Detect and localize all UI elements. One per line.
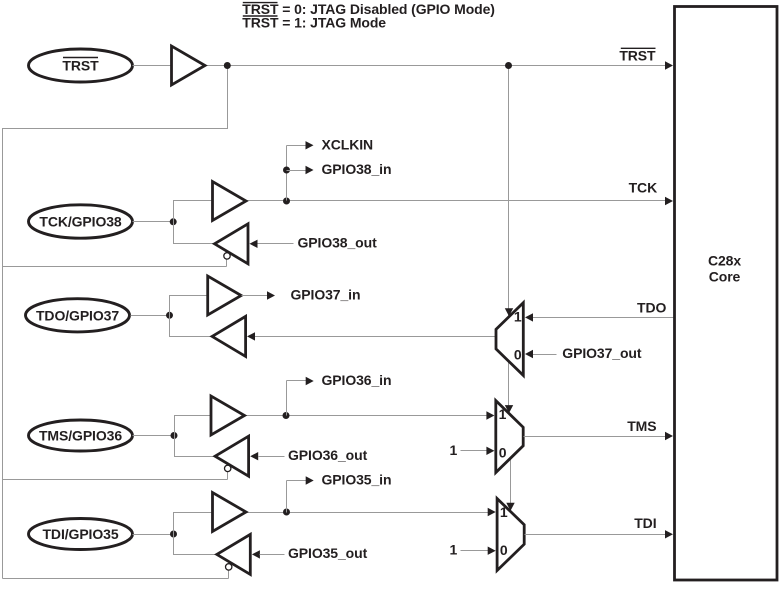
arrowhead select into TDI mux <box>506 503 514 511</box>
wire up to GPIO35 input buffer <box>174 513 213 535</box>
buffer U3 GPIO38 output <box>215 224 249 264</box>
wire JTAG-mode select from TRST node down through muxes (upper) <box>508 66 510 456</box>
svg-text:Core: Core <box>709 269 741 285</box>
pad TMS/GPIO36 <box>29 420 133 451</box>
wire down to GPIO37 output buffer apex <box>170 316 213 337</box>
pad TDI/GPIO35 <box>29 519 133 550</box>
buffer U9 GPIO35 output <box>217 534 251 574</box>
node TRST enable tap <box>224 62 231 69</box>
arrowhead GPIO38_out into buffer <box>250 240 258 248</box>
wire TDO mux output to GPIO37 output buffer <box>253 336 497 338</box>
svg-text:TMS: TMS <box>627 418 656 434</box>
svg-text:TDI: TDI <box>634 515 656 531</box>
node GPIO35_in tap <box>283 509 290 516</box>
svg-text:TCK: TCK <box>629 180 657 196</box>
wire enable branch to GPIO36 output buffer <box>3 479 228 481</box>
wire TRST buffer output to core <box>205 65 672 67</box>
node TCK tap <box>283 198 290 205</box>
buffer U8 GPIO35 input <box>213 493 247 532</box>
block C28x Core <box>675 7 778 581</box>
svg-text:GPIO38_in: GPIO38_in <box>322 161 392 177</box>
arrowhead GPIO35_in <box>306 476 314 484</box>
arrowhead GPIO36_out into buffer <box>250 452 258 460</box>
wire GPIO36 input buffer to TMS mux input 1 <box>245 415 491 417</box>
arrowhead GPIO37_in <box>267 291 275 299</box>
pad TCK/GPIO38 <box>29 205 133 238</box>
wire down to GPIO36 output buffer apex <box>175 436 216 457</box>
arrowhead GPIO36_in <box>306 377 314 385</box>
svg-text:TDO: TDO <box>637 299 666 315</box>
arrowhead TRST into core <box>665 61 673 69</box>
node TMS pad junction <box>171 432 178 439</box>
wire GPIO37_out to mux input 0 <box>531 354 557 356</box>
wire to GPIO35_in <box>287 480 308 482</box>
wire up to GPIO38 input buffer <box>174 201 213 222</box>
node GPIO36_in tap <box>283 412 290 419</box>
arrowhead TCK into core <box>665 197 673 205</box>
buffer U2 GPIO38 input <box>213 182 247 221</box>
arrowhead GPIO35_out into buffer <box>252 550 260 558</box>
wire down to GPIO38 output buffer apex <box>174 222 215 244</box>
arrowhead TMS into core <box>665 432 673 440</box>
wire TDI pad to junction <box>133 534 174 536</box>
mux M3 TDI (select from TRST) <box>497 499 524 571</box>
svg-text:GPIO35_out: GPIO35_out <box>288 545 368 561</box>
node TCK pad junction <box>170 218 177 225</box>
svg-text:GPIO35_in: GPIO35_in <box>322 472 392 488</box>
svg-text:GPIO36_in: GPIO36_in <box>322 372 392 388</box>
wire GPIO38_out <box>258 243 294 245</box>
svg-text:TRST: TRST <box>62 58 99 74</box>
wire enable branch to GPIO38 output buffer <box>3 266 227 268</box>
wire TMS mux output to core <box>524 436 672 438</box>
label TRST (overlined) at core <box>619 48 656 64</box>
wire JTAG-mode select continuation to TDI mux (jog hidden behind TMS mux) <box>510 456 512 508</box>
node TDI pad junction <box>170 531 177 538</box>
svg-text:0: 0 <box>514 347 522 363</box>
wire TCK pad to junction <box>133 221 174 223</box>
svg-text:TDI/GPIO35: TDI/GPIO35 <box>42 526 118 542</box>
wire GPIO35_out <box>260 554 285 556</box>
svg-text:1: 1 <box>449 542 457 558</box>
buffer U6 GPIO36 input <box>211 396 245 435</box>
svg-text:0: 0 <box>499 445 507 461</box>
node TDO pad junction <box>166 312 173 319</box>
arrowhead into TMS mux input 1 <box>486 411 494 419</box>
mux M2 TMS (select from TRST) <box>496 401 523 473</box>
wire constant 1 to TDI mux input 0 <box>461 550 492 552</box>
arrowhead into TMS mux input 0 <box>486 447 494 455</box>
wire enable branch to GPIO35 output buffer <box>3 578 229 580</box>
buffer U1 TRST input <box>172 46 206 85</box>
arrowhead select into TDO mux <box>505 308 513 316</box>
wire TRST enable bus (down, left, down left edge) <box>3 66 228 579</box>
svg-text:TCK/GPIO38: TCK/GPIO38 <box>39 214 122 230</box>
svg-text:TRST: TRST <box>619 48 656 64</box>
bubble GPIO36 output enable <box>225 465 231 471</box>
pad TDO/GPIO37 <box>26 299 130 332</box>
arrowhead select into TMS mux <box>505 405 513 413</box>
arrowhead TDI into core <box>665 530 673 538</box>
bubble GPIO35 output enable <box>226 564 232 570</box>
wire to GPIO38_in <box>287 170 308 172</box>
arrowhead GPIO38_in <box>306 166 314 174</box>
arrowhead into TDI mux input 1 <box>488 508 496 516</box>
svg-text:1: 1 <box>499 406 507 422</box>
svg-text:C28x: C28x <box>708 253 741 269</box>
wire TDO pad to junction <box>131 315 170 317</box>
svg-text:GPIO37_out: GPIO37_out <box>562 345 642 361</box>
note line 1: TRST = 0 <box>242 1 495 17</box>
buffer U7 GPIO36 output <box>215 436 249 476</box>
svg-text:1: 1 <box>449 442 457 458</box>
mux M1 TDO/GPIO37_out (select from TRST) <box>496 303 523 376</box>
wire up to GPIO36 input buffer <box>175 416 211 436</box>
svg-text:GPIO38_out: GPIO38_out <box>298 235 378 251</box>
wire GPIO36_out <box>259 456 285 458</box>
svg-text:0: 0 <box>500 542 508 558</box>
bubble GPIO38 output enable <box>224 253 230 259</box>
wire enable stub up to GPIO38 buffer bubble <box>226 259 228 267</box>
arrowhead GPIO37_out into mux input 0 <box>525 350 533 358</box>
wire enable stub up to GPIO35 buffer bubble <box>228 570 230 579</box>
svg-text:1: 1 <box>514 308 522 324</box>
wire GPIO35 input buffer to TDI mux input 1 <box>247 512 492 514</box>
buffer U5 GPIO37 output <box>212 316 246 356</box>
wire up to GPIO35_in <box>286 481 288 513</box>
arrowhead TDO into mux input 1 <box>525 313 533 321</box>
wire up to XCLKIN / GPIO38_in <box>286 146 288 201</box>
wire up to GPIO37 input buffer <box>170 296 208 316</box>
arrowhead into TDI mux input 0 <box>488 547 496 555</box>
svg-text:GPIO37_in: GPIO37_in <box>291 287 361 303</box>
wire to XCLKIN <box>287 145 308 147</box>
wire up to GPIO36_in <box>286 381 288 416</box>
svg-text:1: 1 <box>500 504 508 520</box>
wire TRST pad to input buffer <box>133 65 172 67</box>
svg-text:GPIO36_out: GPIO36_out <box>288 447 368 463</box>
wire constant 1 to TMS mux input 0 <box>461 450 491 452</box>
arrowhead XCLKIN <box>306 141 314 149</box>
svg-text:XCLKIN: XCLKIN <box>322 136 374 152</box>
wire to GPIO37_in <box>242 295 270 297</box>
wire TCK to core <box>247 200 672 202</box>
arrowhead mux output into GPIO37 output buffer <box>247 332 255 340</box>
wire TMS pad to junction <box>133 435 175 437</box>
svg-text:TRST = 1: JTAG Mode: TRST = 1: JTAG Mode <box>242 15 386 31</box>
wire TDI mux output to core <box>525 534 672 536</box>
wire down to GPIO35 output buffer apex <box>174 535 217 555</box>
svg-text:TMS/GPIO36: TMS/GPIO36 <box>39 428 122 444</box>
node GPIO38_in tap <box>283 167 290 174</box>
wire TDO from core to mux input 1 <box>530 317 675 319</box>
note line 2: TRST = 1 <box>242 15 386 31</box>
buffer U4 GPIO37 input <box>208 276 242 315</box>
wire to GPIO36_in <box>287 380 308 382</box>
wire enable stub up to GPIO36 buffer bubble <box>227 472 229 480</box>
node TRST select tap <box>505 62 512 69</box>
svg-text:TDO/GPIO37: TDO/GPIO37 <box>36 308 119 324</box>
pad TRST <box>29 49 133 82</box>
